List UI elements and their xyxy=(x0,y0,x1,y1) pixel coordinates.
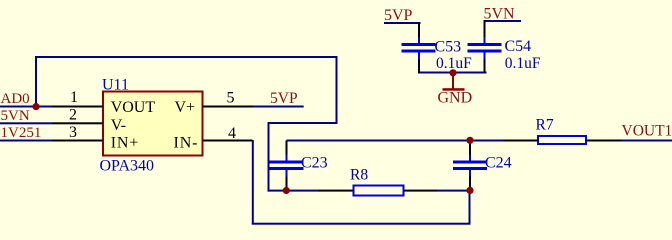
capacitor C24 bottom plate xyxy=(453,167,487,170)
junction dot GND rail xyxy=(449,69,456,76)
svg-text:V-: V- xyxy=(111,117,126,134)
capacitor C24 bottom pin xyxy=(469,177,471,192)
capacitor C23 top stub xyxy=(286,155,288,161)
svg-text:5VN: 5VN xyxy=(1,108,30,124)
capacitor C23 bottom plate xyxy=(270,167,304,170)
capacitor C54 top pin xyxy=(484,20,486,37)
svg-text:0.1uF: 0.1uF xyxy=(505,55,541,72)
svg-text:0.1uF: 0.1uF xyxy=(436,55,472,72)
svg-text:5VP: 5VP xyxy=(384,7,413,24)
svg-text:C54: C54 xyxy=(505,38,532,55)
svg-text:U11: U11 xyxy=(102,77,129,94)
resistor R7 right pin xyxy=(587,140,622,142)
wire 5VN power underline xyxy=(484,20,522,22)
svg-text:VOUT: VOUT xyxy=(111,99,156,116)
svg-text:5VN: 5VN xyxy=(484,6,516,23)
capacitor C23 bottom stub xyxy=(286,170,288,177)
capacitor C54 bottom plate xyxy=(468,50,502,53)
junction dot C23 bottom xyxy=(283,187,290,194)
svg-text:VOUT1: VOUT1 xyxy=(622,123,672,140)
wire AD0 top horizontal run xyxy=(35,56,338,58)
wire C24 bottom vertical xyxy=(469,190,471,224)
wire net 5VN horizontal xyxy=(0,122,52,124)
capacitor C24 top plate xyxy=(453,161,487,164)
pin 3 wire xyxy=(52,140,103,142)
svg-text:C53: C53 xyxy=(435,39,462,56)
capacitor C24 bottom stub xyxy=(469,170,471,177)
svg-text:4: 4 xyxy=(228,125,236,142)
svg-text:1: 1 xyxy=(70,89,78,106)
resistor R8 left pin xyxy=(319,190,353,192)
wire IN- vertical drop xyxy=(252,140,254,225)
wire C23 bottom rail xyxy=(268,190,319,192)
pin 1 wire xyxy=(52,106,103,108)
resistor R7 body xyxy=(538,136,586,144)
junction dot AD0 xyxy=(32,103,39,110)
resistor R8 right pin xyxy=(405,190,437,192)
svg-text:1V251: 1V251 xyxy=(1,125,42,141)
resistor R8 body xyxy=(354,186,404,196)
svg-text:OPA340: OPA340 xyxy=(100,158,155,175)
wire VOUT1 xyxy=(621,140,672,142)
wire vertical down to C23 bottom xyxy=(268,122,270,192)
ground stem xyxy=(452,73,454,89)
svg-text:C23: C23 xyxy=(301,155,328,172)
wire C53-C54 bottom rail xyxy=(418,72,487,74)
capacitor C54 bottom stub xyxy=(484,53,486,60)
capacitor C54 bottom pin xyxy=(484,60,486,74)
svg-text:V+: V+ xyxy=(175,99,196,116)
wire net 1V251 horizontal xyxy=(0,140,52,142)
capacitor C53 top plate xyxy=(402,43,436,46)
svg-text:AD0: AD0 xyxy=(1,91,30,107)
capacitor C53 bottom stub xyxy=(418,53,420,60)
svg-text:C24: C24 xyxy=(485,155,512,172)
svg-text:5VP: 5VP xyxy=(270,90,298,107)
wire 5VP power underline xyxy=(384,22,421,24)
capacitor C53 top pin xyxy=(418,22,420,37)
pin 4 wire xyxy=(203,140,253,142)
junction dot C24 top xyxy=(466,137,473,144)
capacitor C23 top plate xyxy=(270,161,304,164)
wire net AD0 horizontal xyxy=(0,106,52,108)
capacitor C23 bottom pin xyxy=(286,177,288,192)
capacitor C24 top stub xyxy=(469,155,471,161)
wire AD0 vertical riser xyxy=(35,56,37,108)
wire 5VP at pin 5 xyxy=(253,106,304,108)
svg-text:3: 3 xyxy=(69,124,77,141)
pin 5 wire xyxy=(203,106,254,108)
pin 2 wire xyxy=(52,122,103,124)
capacitor C24 top pin xyxy=(469,141,471,155)
resistor R7 left pin xyxy=(504,140,538,142)
wire R8 right to C24 junction xyxy=(436,190,470,192)
wire bottom feedback rail xyxy=(252,223,471,225)
svg-text:GND: GND xyxy=(438,90,473,107)
svg-text:IN-: IN- xyxy=(174,135,199,152)
capacitor C54 top plate xyxy=(468,43,502,46)
wire top feedback rail C23 to R7 xyxy=(287,140,504,142)
svg-text:5: 5 xyxy=(227,90,235,107)
wire AD0 right vertical drop xyxy=(336,56,338,124)
ground bar xyxy=(443,88,465,91)
svg-text:IN+: IN+ xyxy=(111,135,140,152)
op-amp U11 box body xyxy=(103,92,203,156)
capacitor C53 bottom plate xyxy=(402,50,436,53)
capacitor C53 top stub xyxy=(418,37,420,44)
svg-text:2: 2 xyxy=(69,107,77,124)
svg-text:R7: R7 xyxy=(536,117,554,134)
capacitor C23 top pin xyxy=(286,141,288,155)
wire AD0 mid horizontal (to C23 column) xyxy=(268,122,338,124)
capacitor C53 bottom pin xyxy=(418,60,420,74)
svg-text:R8: R8 xyxy=(350,167,368,184)
capacitor C54 top stub xyxy=(484,37,486,44)
junction dot C24 bottom xyxy=(466,187,473,194)
